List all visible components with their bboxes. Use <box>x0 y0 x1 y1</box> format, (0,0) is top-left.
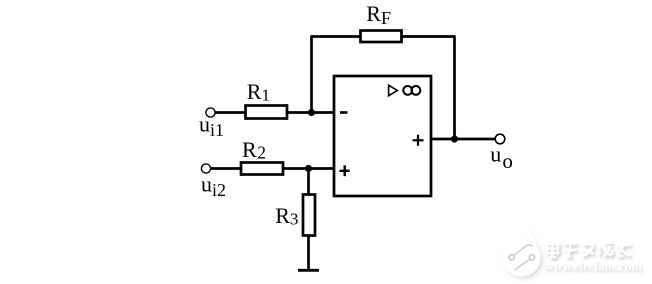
wire: R2 to op-amp non-inverting input <box>283 167 334 170</box>
op-amp gain symbol triangle <box>389 85 398 96</box>
resistor R1 <box>246 106 288 119</box>
op-amp inverting input minus sign <box>340 111 348 114</box>
resistor RF <box>361 31 402 43</box>
svg-text:R3: R3 <box>275 203 298 229</box>
terminal ui1 <box>206 108 215 117</box>
resistor R3 <box>303 195 315 236</box>
op-amp non-inverting input plus sign <box>339 170 349 172</box>
junction node: inverting input <box>308 109 315 116</box>
wire: op-amp output to uo terminal <box>431 138 495 141</box>
svg-text:www.elecfans.com: www.elecfans.com <box>545 260 643 274</box>
op-amp output plus sign <box>413 139 424 141</box>
svg-text:R1: R1 <box>247 79 270 105</box>
wire: ui2 to R2 <box>211 167 242 170</box>
wire: feedback left vertical leg <box>310 37 313 113</box>
svg-text:R2: R2 <box>242 137 266 163</box>
svg-text:ui2: ui2 <box>201 171 226 200</box>
op-amp U1 body <box>334 76 431 196</box>
wire: R3 to ground <box>307 236 310 270</box>
junction node: output/feedback <box>451 135 458 142</box>
op-amp infinity symbol <box>403 86 412 95</box>
svg-text:RF: RF <box>366 1 391 28</box>
junction node: non-inverting input / R3 <box>305 165 312 172</box>
wire: junction down to R3 <box>307 169 310 196</box>
watermark logo <box>502 231 543 280</box>
wire: R1 to op-amp inverting input <box>287 111 334 114</box>
wire: ui1 to R1 <box>215 111 246 114</box>
terminal uo <box>495 134 505 144</box>
watermark chinese text (stroke ghosting) <box>549 243 633 259</box>
wire: feedback top left segment <box>311 35 362 38</box>
terminal ui2 <box>201 164 210 173</box>
ground <box>298 269 319 272</box>
wire: feedback top right segment <box>402 35 456 38</box>
wire: feedback right vertical leg <box>453 37 456 140</box>
svg-text:uo: uo <box>490 142 513 173</box>
resistor R2 <box>241 163 283 175</box>
